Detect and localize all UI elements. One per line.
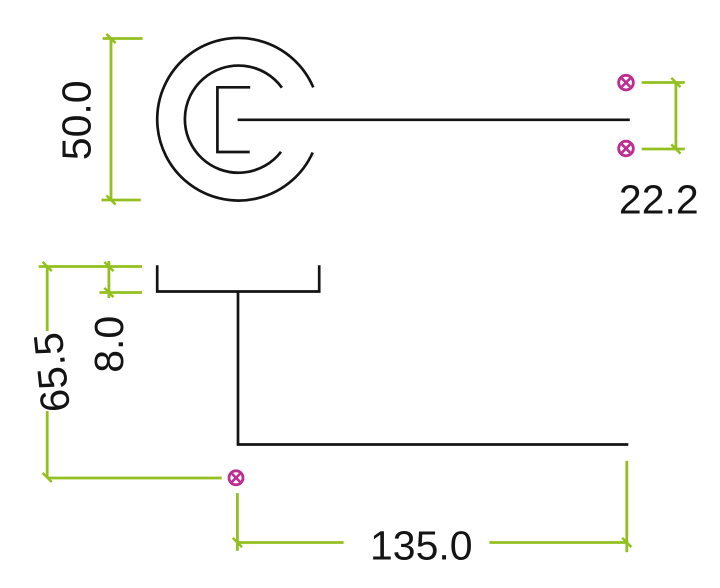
svg-text:8.0: 8.0 [86,316,132,373]
handle side view: lever profile [238,292,628,445]
handle front view: lever bar [238,118,630,121]
fixing point side view [229,471,243,485]
dimension 50.0: oblique tick top [106,34,115,43]
dimension 65.5: oblique tick bottom [43,473,52,482]
dimension 22.2: oblique tick bottom [671,144,680,153]
dimension 135.0: dimension line right segment [489,541,627,544]
svg-text:22.2: 22.2 [619,176,699,222]
dimension 22.2: extension line top [642,81,685,84]
dimension 65.5: dimension line upper segment [46,267,49,332]
dimension 50.0: oblique tick bottom [106,195,115,204]
handle front view: spindle bracket [217,87,250,152]
dimension 8.0: oblique tick bottom [104,288,113,297]
dimension 22.2: dimension line [675,83,678,150]
dimension 8.0: oblique tick top [104,262,113,271]
dimension 8.0: dimension line [108,261,111,298]
dimension 8.0: bottom extension line [100,291,143,294]
dimension 65.5: dimension line lower segment [46,411,49,478]
handle front view: inner rose circle [185,66,282,173]
dimension 22.2: extension line bottom [642,148,685,151]
dimension 135.0: oblique tick left [233,538,242,547]
dimension 50.0: extension tick bottom [102,199,141,202]
svg-text:65.5: 65.5 [25,330,79,414]
fixing point bottom [619,141,634,156]
svg-text:135.0: 135.0 [370,522,473,568]
dimension 65.5: oblique tick top [43,262,52,271]
dimension 8.0 + 65.5: shared top extension line [39,265,142,268]
dimension 22.2: oblique tick top [671,78,680,87]
dimension 65.5: bottom extension line to fixing point [47,477,222,480]
handle side view: rose profile [157,265,319,291]
dimension 135.0: dimension line left segment [237,541,343,544]
dimension 135.0: left extension line below fixing point [236,493,239,551]
fixing point top [619,75,634,90]
dimension 135.0: oblique tick right [622,538,631,547]
handle front view: outer rose circle [157,38,313,201]
svg-text:50.0: 50.0 [54,80,100,160]
dimension 135.0: right extension line [625,461,628,552]
dimension 50.0: dimension line [110,39,113,201]
dimension 50.0: extension tick top [103,37,143,40]
